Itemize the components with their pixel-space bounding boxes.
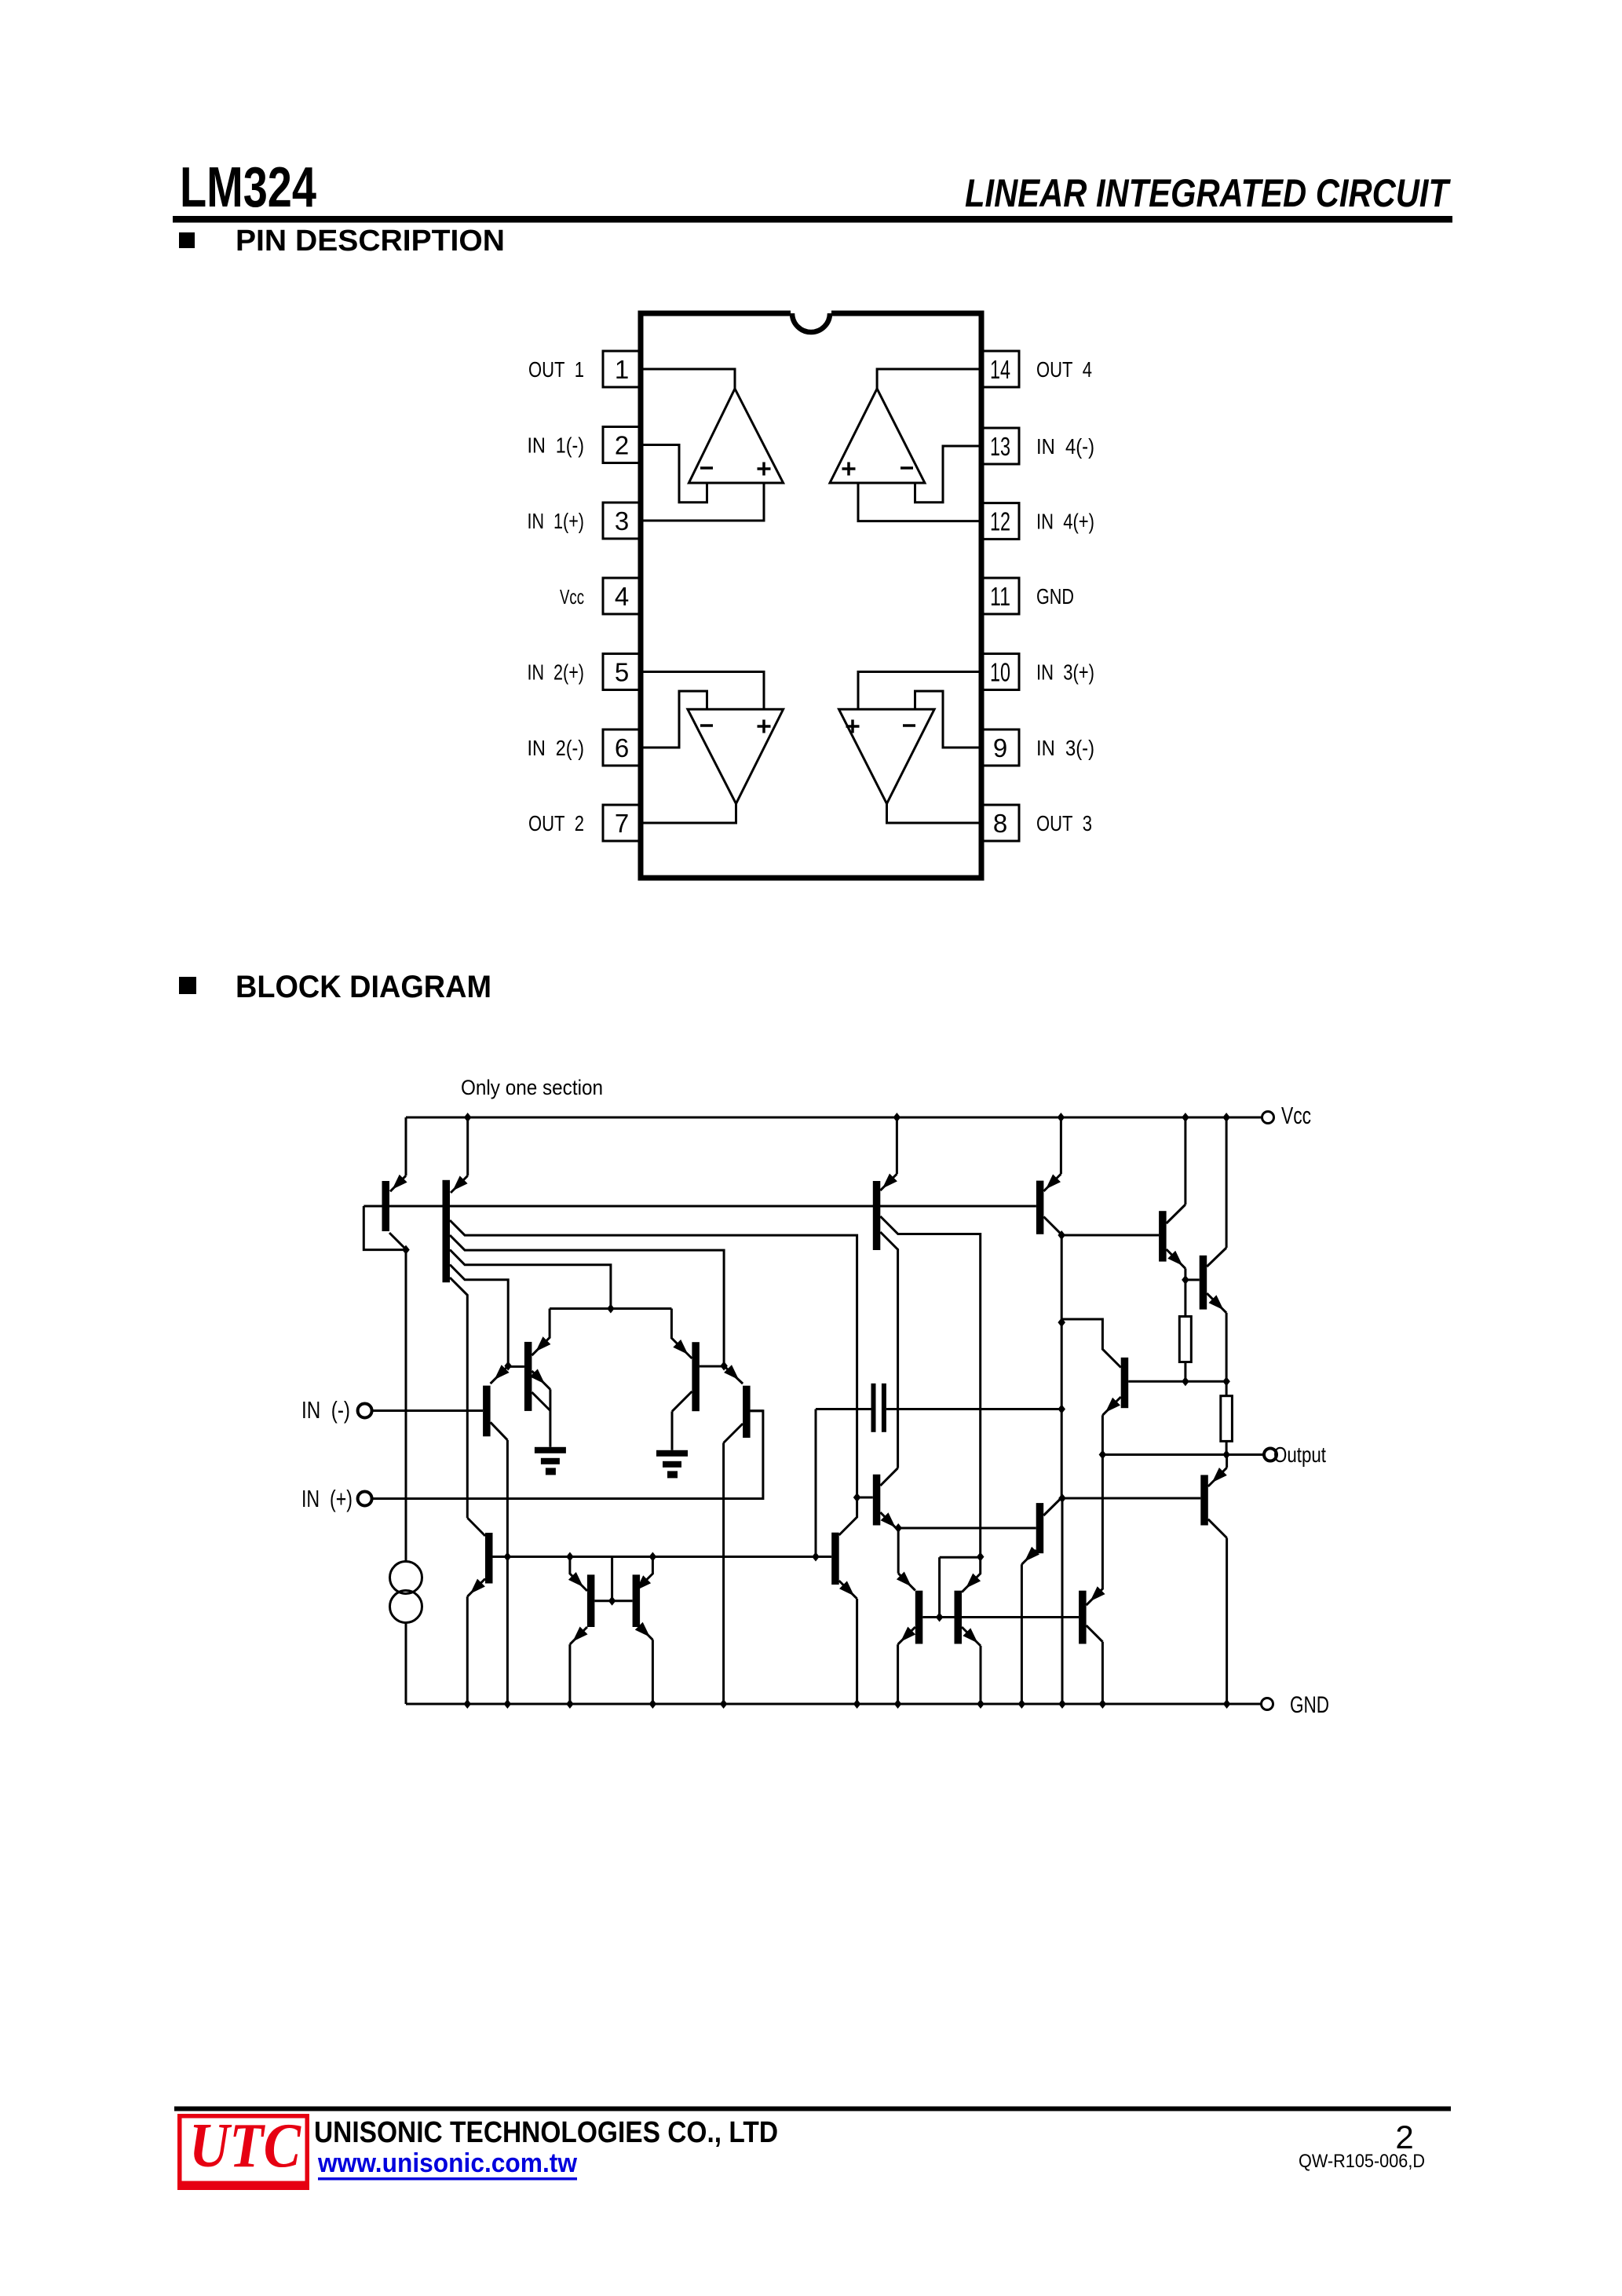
svg-text:2: 2 bbox=[1395, 2119, 1413, 2155]
svg-text:12: 12 bbox=[990, 507, 1010, 536]
svg-text:OUT 1: OUT 1 bbox=[528, 357, 584, 382]
svg-text:11: 11 bbox=[990, 582, 1010, 611]
svg-text:Vcc: Vcc bbox=[1281, 1102, 1311, 1129]
svg-text:UNISONIC TECHNOLOGIES CO., LTD: UNISONIC TECHNOLOGIES CO., LTD bbox=[314, 2116, 778, 2149]
svg-text:10: 10 bbox=[990, 658, 1010, 687]
svg-text:5: 5 bbox=[615, 658, 629, 687]
svg-text:14: 14 bbox=[990, 355, 1010, 384]
svg-text:1: 1 bbox=[615, 355, 629, 384]
svg-text:IN 2(-): IN 2(-) bbox=[528, 736, 585, 760]
svg-text:IN (-): IN (-) bbox=[301, 1396, 350, 1424]
svg-text:Vcc: Vcc bbox=[560, 585, 584, 609]
svg-text:IN 4(-): IN 4(-) bbox=[1036, 434, 1094, 459]
svg-text:GND: GND bbox=[1290, 1692, 1329, 1718]
svg-text:GND: GND bbox=[1036, 584, 1074, 609]
svg-text:6: 6 bbox=[615, 733, 629, 762]
svg-text:2: 2 bbox=[615, 431, 629, 460]
svg-text:IN 2(+): IN 2(+) bbox=[528, 660, 585, 685]
svg-text:LM324: LM324 bbox=[180, 156, 316, 219]
svg-text:IN 3(+): IN 3(+) bbox=[1036, 660, 1094, 685]
svg-text:4: 4 bbox=[615, 582, 629, 611]
svg-text:9: 9 bbox=[993, 733, 1007, 762]
svg-text:Output: Output bbox=[1273, 1442, 1326, 1467]
svg-text:UTC: UTC bbox=[189, 2111, 301, 2181]
svg-text:8: 8 bbox=[993, 809, 1007, 838]
svg-text:PIN DESCRIPTION: PIN DESCRIPTION bbox=[236, 225, 505, 258]
svg-text:LINEAR INTEGRATED CIRCUIT: LINEAR INTEGRATED CIRCUIT bbox=[965, 171, 1452, 215]
svg-text:IN (+): IN (+) bbox=[301, 1485, 353, 1512]
svg-text:3: 3 bbox=[615, 506, 629, 536]
svg-text:BLOCK DIAGRAM: BLOCK DIAGRAM bbox=[236, 970, 491, 1004]
svg-text:www.unisonic.com.tw: www.unisonic.com.tw bbox=[317, 2148, 577, 2178]
svg-text:OUT 4: OUT 4 bbox=[1036, 357, 1092, 382]
svg-text:OUT 3: OUT 3 bbox=[1036, 811, 1092, 835]
svg-text:IN 1(+): IN 1(+) bbox=[528, 509, 585, 533]
svg-text:7: 7 bbox=[615, 809, 629, 838]
svg-text:IN 3(-): IN 3(-) bbox=[1036, 736, 1094, 760]
svg-text:OUT 2: OUT 2 bbox=[528, 811, 584, 835]
svg-text:13: 13 bbox=[990, 432, 1010, 461]
svg-text:IN 1(-): IN 1(-) bbox=[528, 433, 585, 458]
svg-text:Only one section: Only one section bbox=[461, 1076, 603, 1099]
svg-text:QW-R105-006,D: QW-R105-006,D bbox=[1299, 2151, 1425, 2172]
svg-text:IN 4(+): IN 4(+) bbox=[1036, 510, 1094, 534]
